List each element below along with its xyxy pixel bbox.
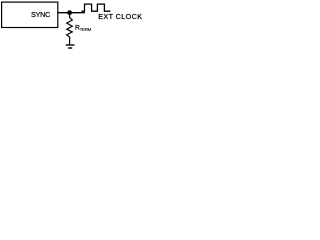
- clock waveform symbol (two pulses): [82, 4, 111, 11]
- resistor RTERM (zigzag to ground): [67, 13, 73, 45]
- node junction (solder dot): [67, 10, 72, 15]
- svg-text:SYNC: SYNC: [31, 10, 50, 19]
- wire SYNC output to node: [58, 12, 85, 14]
- IC box U1 (SYNC output block): [2, 2, 58, 27]
- ground: [66, 45, 75, 48]
- svg-text:EXT CLOCK: EXT CLOCK: [98, 12, 142, 21]
- svg-text:RTERM: RTERM: [75, 25, 92, 33]
